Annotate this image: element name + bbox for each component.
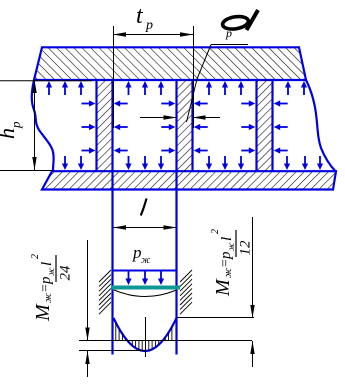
dimension l line with arrows <box>113 225 177 229</box>
strip load arrows <box>125 271 164 285</box>
moment diagram centerline <box>145 317 147 357</box>
rib 2 web <box>177 79 193 172</box>
svg-text:ж: ж <box>226 242 236 251</box>
svg-text:ж: ж <box>141 255 151 266</box>
strip load top line <box>112 270 177 272</box>
deflection curve <box>114 290 177 297</box>
pressure arrows cavity 2 <box>114 81 176 170</box>
label h_p <box>0 121 23 139</box>
support hatch left <box>99 270 111 314</box>
dimension t_p line with arrows <box>113 32 193 36</box>
pressure arrows cavity 3 <box>194 81 256 170</box>
label d_p text <box>222 10 258 40</box>
moment diagram vertical hatch <box>116 323 172 351</box>
strip plate (teal) <box>111 286 180 290</box>
moment diagram parabola <box>114 318 177 351</box>
support moment level line <box>177 317 254 319</box>
pressure arrows cavity 4 <box>274 81 323 170</box>
bottom flange slab <box>42 171 336 189</box>
label d_p leader and shelf <box>187 45 249 123</box>
svg-text:l: l <box>219 237 235 241</box>
rib 3 web <box>257 79 273 172</box>
dimension M span (left) <box>85 240 89 377</box>
dimension M support (right) <box>250 217 254 367</box>
moment vertex line <box>79 350 146 352</box>
svg-text:12: 12 <box>238 240 254 256</box>
left break line <box>32 80 54 171</box>
svg-text:p: p <box>38 276 54 285</box>
dimension t_p extension lines <box>114 26 194 128</box>
pressure arrows cavity 1 <box>46 81 96 170</box>
svg-text:p: p <box>145 18 153 33</box>
top flange slab <box>34 47 306 80</box>
svg-text:p: p <box>218 251 234 260</box>
right break line <box>306 80 336 171</box>
label l <box>141 199 147 216</box>
label t_p <box>136 3 153 33</box>
svg-text:M: M <box>32 303 54 322</box>
dimension d_p arrows at rib 2 <box>140 115 220 119</box>
label p_zh load <box>132 243 151 266</box>
svg-text:l: l <box>39 262 55 266</box>
strip wall left (rib1 right face, extended down) <box>111 79 113 355</box>
support hatch right <box>180 270 192 314</box>
svg-text:M: M <box>212 278 234 297</box>
dimension h_p extension lines <box>0 81 92 171</box>
svg-text:h: h <box>0 128 19 139</box>
strip wall right (rib2 left face, extended down) <box>175 79 177 355</box>
label M_zh = p_zh l^2 / 12 <box>210 229 254 297</box>
svg-text:ж: ж <box>46 267 56 276</box>
moment zero line <box>79 340 252 342</box>
svg-text:p: p <box>8 121 23 129</box>
svg-text:2: 2 <box>210 229 221 234</box>
label M_zh = p_zh l^2 / 24 <box>30 254 74 322</box>
dimension h_p line with arrows <box>32 80 36 170</box>
svg-text:2: 2 <box>30 254 41 259</box>
svg-text:p: p <box>225 26 232 40</box>
rib 1 web <box>97 79 113 172</box>
svg-text:24: 24 <box>58 265 74 281</box>
